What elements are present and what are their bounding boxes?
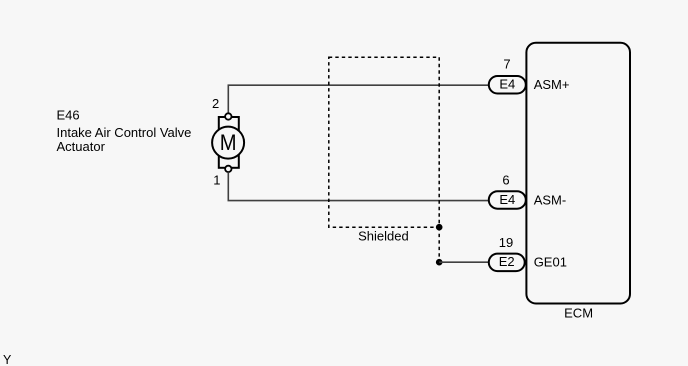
junction at shield corner: [436, 224, 443, 231]
pin 1: [213, 172, 220, 187]
svg-text:E2: E2: [499, 254, 515, 269]
svg-text:2: 2: [212, 96, 219, 111]
pin 2: [212, 96, 219, 111]
junction at drain to GE01: [436, 259, 443, 266]
svg-text:1: 1: [213, 172, 220, 187]
svg-text:6: 6: [502, 173, 509, 188]
motor M1 (Intake Air Control Valve Actuator): [212, 117, 244, 168]
svg-text:E4: E4: [499, 76, 515, 91]
label Y (page index): [3, 353, 12, 366]
svg-text:ECM: ECM: [564, 306, 593, 321]
label E46 Intake Air Control Valve Actuator: [57, 107, 192, 154]
label Shielded: [358, 228, 409, 243]
ECM box: [526, 43, 630, 304]
pin 6: [502, 173, 509, 188]
svg-text:Y: Y: [3, 353, 12, 366]
connector E4 pin 7: [489, 76, 526, 94]
svg-text:ASM+: ASM+: [534, 77, 570, 92]
svg-text:E4: E4: [499, 192, 515, 207]
label GE01: [534, 254, 567, 269]
shield box (dashed): [329, 57, 439, 227]
svg-text:E46: E46: [57, 107, 80, 122]
terminal pin 1: [225, 166, 231, 172]
svg-text:19: 19: [499, 235, 513, 250]
svg-text:ASM-: ASM-: [534, 192, 567, 207]
label ECM: [564, 306, 593, 321]
wire ASM+ (motor pin 2 to ECM E4-7): [228, 85, 489, 113]
wire ASM- (motor pin 1 to ECM E4-6): [228, 172, 489, 200]
label ASM+: [534, 77, 570, 92]
svg-text:GE01: GE01: [534, 254, 567, 269]
connector E2 pin 19: [489, 254, 525, 272]
wire GE01 (shield drain to ECM E2-19): [439, 261, 489, 263]
terminal pin 2: [225, 113, 231, 119]
svg-text:Shielded: Shielded: [358, 228, 409, 243]
svg-text:7: 7: [503, 57, 510, 72]
pin 19: [499, 235, 513, 250]
svg-text:Intake Air Control Valve: Intake Air Control Valve: [57, 125, 192, 140]
connector E4 pin 6: [489, 191, 526, 209]
svg-text:M: M: [220, 130, 237, 155]
svg-text:Actuator: Actuator: [57, 139, 106, 154]
label ASM-: [534, 192, 567, 207]
pin 7: [503, 57, 510, 72]
shield drain wire (dashed): [438, 227, 440, 262]
